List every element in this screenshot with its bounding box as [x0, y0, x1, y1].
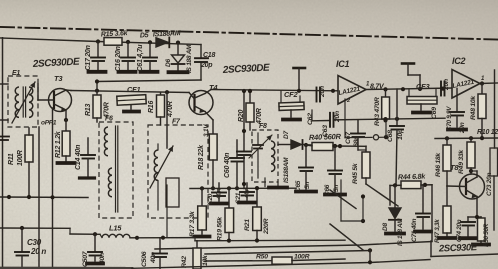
- capacitor C507: [82, 234, 106, 267]
- wire top bus: [0, 38, 201, 80]
- capacitor C71: [411, 185, 431, 242]
- transformer T-E1 secondary: [29, 87, 33, 117]
- svg-text:IC1: IC1: [336, 59, 350, 69]
- capacitor C74: [456, 217, 476, 242]
- coil F8: [271, 141, 275, 171]
- coil F6 lower: [108, 168, 112, 197]
- wire feedback bus: [334, 117, 445, 121]
- capacitor C16: [115, 42, 136, 72]
- label 8.7V: [370, 84, 385, 91]
- diode D6: [165, 43, 193, 73]
- resistor R12: [55, 120, 75, 163]
- svg-text:D5: D5: [140, 32, 149, 39]
- capacitor C20: [207, 183, 227, 205]
- capacitor C17: [85, 42, 106, 72]
- shield box F6: [99, 116, 133, 219]
- svg-text:C71 40n: C71 40n: [411, 219, 418, 242]
- filter CF2: [279, 90, 304, 120]
- resistor R48: [470, 84, 486, 139]
- svg-text:R46 18k: R46 18k: [435, 152, 442, 177]
- capacitor C506: [141, 238, 167, 269]
- wire bottom bus 2: [155, 242, 432, 250]
- svg-text:100R: 100R: [17, 150, 24, 166]
- resistor R47: [434, 186, 455, 243]
- svg-text:R21: R21: [244, 219, 251, 231]
- capacitor C69 series: [431, 79, 450, 119]
- wire vertical bus A: [38, 127, 40, 269]
- svg-text:D6: D6: [165, 59, 172, 67]
- capacitor C60: [224, 140, 244, 190]
- svg-text:E1: E1: [12, 70, 20, 77]
- svg-text:20 n: 20 n: [30, 247, 46, 256]
- svg-text:R17 3.3k: R17 3.3k: [189, 210, 196, 237]
- filter CF1: [117, 85, 146, 112]
- ground mid: [269, 182, 287, 188]
- svg-text:C61 4,7u: C61 4,7u: [137, 44, 144, 72]
- capacitor C61: [137, 42, 158, 72]
- resistor R16: [148, 92, 174, 125]
- svg-text:L15: L15: [109, 224, 122, 233]
- label R10: [477, 129, 498, 136]
- shield box F7: [148, 119, 208, 219]
- wire output box: [431, 185, 498, 257]
- svg-text:CF3: CF3: [416, 82, 430, 91]
- resistor R19: [217, 188, 234, 241]
- svg-text:C506: C506: [141, 251, 148, 267]
- label 2SC930DE mid: [222, 63, 271, 77]
- coil F7: [154, 144, 158, 180]
- capacitor C68: [387, 89, 404, 185]
- wire bottom bus 1: [195, 238, 345, 243]
- svg-text:T8: T8: [450, 163, 459, 172]
- svg-text:2SC930E: 2SC930E: [438, 242, 478, 254]
- svg-text:220R: 220R: [263, 218, 270, 235]
- svg-text:IS188AM: IS188AM: [153, 30, 181, 38]
- svg-text:C17 20n: C17 20n: [85, 45, 92, 70]
- svg-text:R15 3.6k: R15 3.6k: [101, 30, 129, 38]
- resistor R44: [390, 172, 432, 205]
- svg-text:R48 10k: R48 10k: [470, 95, 477, 120]
- capacitor C500: [490, 148, 498, 230]
- svg-text:IS 188 AM: IS 188 AM: [186, 44, 193, 73]
- tuning arrow F7: [150, 146, 173, 188]
- svg-text:2: 2: [346, 98, 350, 104]
- svg-text:R16: R16: [148, 101, 155, 113]
- svg-text:R50: R50: [256, 254, 268, 261]
- wire diagonal 3: [330, 224, 363, 250]
- resistor R49: [458, 138, 475, 174]
- svg-text:R13: R13: [85, 104, 92, 116]
- svg-text:R49 33k: R49 33k: [458, 149, 465, 174]
- resistor R40: [304, 132, 366, 151]
- label 2SC930E: [438, 242, 478, 254]
- svg-text:CF1: CF1: [127, 85, 140, 94]
- capacitor C62 series: [307, 86, 326, 125]
- svg-text:C74 20n: C74 20n: [456, 219, 463, 242]
- resistor R15: [101, 30, 129, 45]
- wire T4 emitter: [212, 120, 214, 134]
- core F6: [116, 126, 118, 212]
- wire diagonal 1: [366, 184, 398, 206]
- wire emitter node: [468, 215, 481, 219]
- resistor R50b: [205, 254, 345, 265]
- resistor R43: [374, 89, 390, 126]
- coil F6 upper: [104, 127, 108, 156]
- op-amp IC1: [336, 59, 370, 104]
- svg-text:40n: 40n: [244, 187, 251, 199]
- svg-text:F8: F8: [259, 123, 267, 130]
- boundary chain line: [0, 27, 498, 40]
- svg-text:R19 56k: R19 56k: [217, 216, 224, 241]
- wire mid ground bus: [190, 186, 296, 190]
- wire antenna left: [0, 84, 8, 120]
- svg-text:C70 9,9V: C70 9,9V: [446, 106, 453, 131]
- svg-text:T4: T4: [209, 83, 218, 92]
- wire left border vertical: [2, 38, 4, 269]
- svg-text:40n: 40n: [150, 252, 157, 264]
- label C73: [486, 173, 493, 196]
- svg-text:CF2: CF2: [284, 90, 298, 99]
- capacitor C14: [75, 138, 95, 178]
- resistor R50e: [473, 217, 490, 247]
- svg-text:C18: C18: [203, 52, 215, 59]
- svg-text:C14 40n: C14 40n: [75, 145, 82, 170]
- svg-text:R47 3,3k: R47 3,3k: [434, 219, 441, 243]
- capacitor C64: [237, 89, 251, 189]
- transistor T4: [189, 83, 218, 120]
- svg-text:5n: 5n: [333, 185, 340, 192]
- svg-text:IS188AM: IS188AM: [283, 157, 290, 183]
- resistor R18: [198, 134, 217, 190]
- svg-text:R42: R42: [181, 256, 188, 268]
- svg-text:R12 1.2k: R12 1.2k: [55, 130, 62, 158]
- svg-text:R44 6.8k: R44 6.8k: [398, 172, 427, 182]
- svg-text:oPP1: oPP1: [41, 120, 57, 127]
- wire bottom right connector: [368, 250, 372, 264]
- shield box E1: [8, 70, 38, 127]
- svg-text:R43 470R: R43 470R: [374, 97, 381, 126]
- photo edge bottom-left: [0, 260, 430, 269]
- power rail tap 2: [402, 64, 420, 89]
- wire vertical bus B: [52, 108, 54, 269]
- wire T4 base drop: [166, 92, 168, 148]
- resistor R17: [189, 188, 210, 237]
- wire interstage row: [71, 89, 189, 95]
- wire F7 bottom: [158, 181, 167, 238]
- resistor R46: [435, 138, 451, 186]
- filter CF3: [407, 82, 437, 113]
- svg-text:R50 56R: R50 56R: [483, 223, 490, 247]
- wire corner net: [341, 180, 365, 223]
- svg-text:C30: C30: [27, 238, 42, 247]
- svg-text:C68: C68: [387, 130, 394, 142]
- svg-text:C16 20n: C16 20n: [115, 46, 122, 71]
- node T3 emitter: [64, 118, 68, 122]
- wire IC2 out: [480, 81, 498, 85]
- svg-text:F6: F6: [105, 116, 113, 123]
- resistor R13: [85, 91, 111, 122]
- wire IC1 out: [366, 87, 452, 92]
- svg-text:C60 40n: C60 40n: [224, 153, 231, 178]
- resistor R42: [181, 241, 209, 269]
- resistor R45: [352, 146, 370, 184]
- svg-text:20n: 20n: [443, 79, 450, 91]
- svg-text:10p: 10p: [397, 129, 404, 140]
- capacitor C30: [15, 228, 46, 269]
- transformer T-E1 core: [23, 87, 25, 117]
- svg-text:20n: 20n: [334, 111, 341, 123]
- op-amp IC2: [452, 56, 485, 98]
- wire L15 bus: [137, 236, 195, 240]
- core F7: [166, 178, 179, 207]
- capacitor C65: [295, 145, 316, 192]
- wire bottom bus 4: [70, 228, 100, 236]
- label 2SC930DE left: [32, 57, 81, 71]
- resistor R21: [244, 186, 270, 241]
- resistor R20: [238, 89, 263, 130]
- capacitor antenna trim: [0, 137, 9, 141]
- shield box F8: [252, 123, 278, 182]
- svg-text:D8: D8: [382, 223, 389, 231]
- capacitor C63 series: [312, 110, 341, 137]
- svg-text:40n: 40n: [216, 188, 223, 200]
- svg-text:20n: 20n: [319, 86, 326, 98]
- wire C30 bus: [0, 226, 70, 230]
- capacitor C21: [235, 183, 255, 204]
- wire lower-left bus: [0, 195, 88, 200]
- wire diagonal 2: [330, 190, 356, 209]
- wire T3 base stub: [37, 84, 39, 100]
- power rail tap 1: [294, 68, 306, 91]
- svg-text:R11: R11: [8, 153, 15, 165]
- svg-text:C21: C21: [235, 192, 242, 204]
- resistor R11: [8, 128, 33, 197]
- wire T4-IC1 row: [211, 89, 338, 93]
- svg-text:C65: C65: [295, 180, 302, 192]
- node junctions top bus: [95, 39, 180, 83]
- svg-text:C20: C20: [207, 193, 214, 205]
- svg-text:C63: C63: [322, 125, 329, 137]
- svg-text:470R: 470R: [167, 101, 174, 118]
- transistor T3: [38, 74, 72, 127]
- capacitor C66: [324, 146, 345, 196]
- wire right bus: [435, 136, 498, 140]
- svg-text:IS 188 AM: IS 188 AM: [397, 218, 404, 246]
- diode D8: [382, 185, 404, 246]
- wire pin2 bus: [345, 99, 388, 140]
- diode D7: [278, 131, 312, 183]
- svg-text:5n: 5n: [304, 182, 311, 189]
- svg-text:C62: C62: [307, 113, 314, 125]
- diode D5: [140, 30, 181, 47]
- inductor L15: [100, 224, 139, 240]
- svg-text:C69: C69: [431, 107, 438, 119]
- transistor T8: [447, 163, 485, 217]
- wire upper return bus: [97, 80, 201, 91]
- svg-text:10k: 10k: [202, 254, 209, 266]
- svg-text:20p: 20p: [200, 62, 213, 69]
- wire right edge: [494, 70, 496, 148]
- trimmer capacitor F8: [249, 133, 272, 178]
- svg-text:20n: 20n: [459, 122, 466, 134]
- capacitor C18: [195, 52, 215, 69]
- svg-text:40n: 40n: [99, 253, 106, 265]
- svg-text:R45 5k: R45 5k: [352, 162, 359, 184]
- capacitor C70: [446, 89, 466, 135]
- wire F8 bottom: [264, 178, 266, 187]
- svg-text:D7: D7: [283, 131, 290, 139]
- label 3.1V: [203, 124, 210, 137]
- svg-text:R18 22k: R18 22k: [198, 144, 205, 170]
- tuning arrow E1: [12, 82, 35, 123]
- svg-text:T3: T3: [54, 74, 63, 83]
- svg-text:C507: C507: [82, 250, 89, 267]
- capacitor C67b: [345, 120, 365, 150]
- wire bottom bus 3: [205, 248, 372, 254]
- svg-text:IC2: IC2: [452, 56, 466, 66]
- transformer T-E1 primary: [15, 87, 19, 117]
